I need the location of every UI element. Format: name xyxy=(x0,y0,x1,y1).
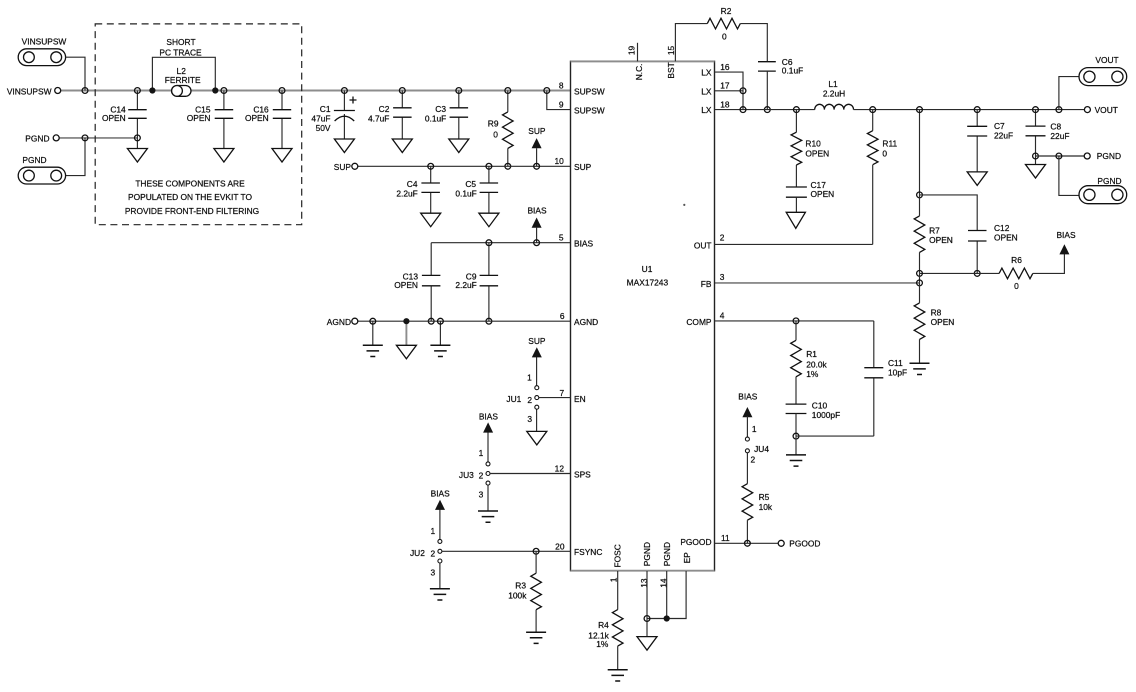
op-amp U1 MAX17243 body xyxy=(571,61,715,570)
svg-text:18: 18 xyxy=(720,99,730,109)
resistor R9 0 xyxy=(507,91,509,167)
wire AGND ground lead 2 xyxy=(439,321,441,345)
junction C1 top xyxy=(342,88,348,94)
svg-text:R2: R2 xyxy=(721,6,732,16)
svg-text:10: 10 xyxy=(554,156,564,166)
power arrow BIAS at R6 xyxy=(1059,244,1069,254)
svg-text:1%: 1% xyxy=(596,639,609,649)
junction R7/C12 node xyxy=(917,192,923,198)
svg-text:100k: 100k xyxy=(508,590,527,600)
svg-text:1: 1 xyxy=(752,424,757,434)
junction LX18 xyxy=(740,107,746,113)
svg-text:BIAS: BIAS xyxy=(574,239,593,249)
svg-text:OUT: OUT xyxy=(694,240,712,250)
terminal PGND right xyxy=(1084,153,1090,159)
svg-text:R4: R4 xyxy=(598,620,609,630)
svg-text:2.2uH: 2.2uH xyxy=(823,88,845,98)
wire PGND left net xyxy=(56,137,137,139)
wire VOUT to R7 node xyxy=(919,110,921,195)
ground C5 xyxy=(479,213,499,227)
resistor R2 0 xyxy=(707,18,740,29)
svg-text:JU1: JU1 xyxy=(506,394,521,404)
connector VOUT (2-pad oval) xyxy=(1079,68,1127,86)
svg-text:SUP: SUP xyxy=(528,336,546,346)
wire C10 node to ground xyxy=(795,436,797,455)
dashed note box front-end filtering xyxy=(95,24,302,225)
svg-text:PGND: PGND xyxy=(1097,176,1121,186)
svg-text:10pF: 10pF xyxy=(888,368,907,378)
junction C2 top xyxy=(399,88,405,94)
junction C14 top xyxy=(135,88,141,94)
svg-text:PGOOD: PGOOD xyxy=(680,537,711,547)
svg-text:2: 2 xyxy=(431,548,436,558)
junction C5 top xyxy=(486,163,492,169)
junction C9 bottom xyxy=(486,318,492,324)
ground R3 signal xyxy=(526,632,546,643)
ground C16 xyxy=(272,149,292,163)
connector PGND (2-pad oval) left xyxy=(18,167,65,184)
junction R9 top xyxy=(505,88,511,94)
svg-text:FERRITE: FERRITE xyxy=(165,75,201,85)
capacitor C1 47uF 50V xyxy=(343,91,345,140)
junction R3 top FSYNC xyxy=(533,548,539,554)
junction R10 top xyxy=(794,107,800,113)
resistor R7 OPEN xyxy=(919,195,921,274)
svg-text:EP: EP xyxy=(682,552,692,564)
ground AGND signal 2 xyxy=(430,345,450,356)
wire OUT pin 2 xyxy=(715,243,873,245)
svg-text:OPEN: OPEN xyxy=(811,189,835,199)
junction C6 bottom LX xyxy=(764,107,770,113)
svg-text:3: 3 xyxy=(431,567,436,577)
terminal SUP xyxy=(352,163,358,169)
svg-text:3: 3 xyxy=(527,414,532,424)
connector PGND (2-pad oval) right xyxy=(1079,186,1127,204)
junction VINSUPSW bus xyxy=(82,88,88,94)
junction AGND dot xyxy=(403,318,409,324)
junction R11 top xyxy=(870,107,876,113)
svg-text:OPEN: OPEN xyxy=(805,149,829,159)
svg-text:PGND: PGND xyxy=(662,542,672,566)
ground AGND triangle xyxy=(396,345,416,359)
capacitor C5 0.1uF xyxy=(488,166,490,213)
ground C4 xyxy=(421,213,441,227)
jumper JU4 xyxy=(746,426,748,438)
svg-text:VINSUPSW: VINSUPSW xyxy=(22,36,67,46)
terminal PGOOD xyxy=(778,540,784,546)
svg-text:OPEN: OPEN xyxy=(394,280,418,290)
svg-text:2: 2 xyxy=(479,471,484,481)
ground C15 xyxy=(214,149,234,163)
ground R8 signal xyxy=(910,363,930,374)
svg-text:R11: R11 xyxy=(882,138,897,148)
wire C8 to PGND terminal xyxy=(1036,155,1088,157)
capacitor C9 2.2uF xyxy=(488,243,490,322)
svg-text:C3: C3 xyxy=(435,104,446,114)
plus sign C1 xyxy=(350,97,357,104)
junction AGND 2 xyxy=(438,318,444,324)
connector VINSUPSW (2-pad oval) xyxy=(18,49,65,66)
svg-text:22uF: 22uF xyxy=(1050,131,1069,141)
svg-text:1: 1 xyxy=(479,448,484,458)
svg-text:C11: C11 xyxy=(888,358,903,368)
svg-text:22uF: 22uF xyxy=(994,130,1013,140)
wire SUP rail xyxy=(355,165,571,167)
ground C2 xyxy=(392,139,412,153)
svg-text:15: 15 xyxy=(666,45,676,55)
svg-text:OPEN: OPEN xyxy=(931,317,955,327)
wire R2 to C6 xyxy=(740,24,767,62)
svg-text:U1: U1 xyxy=(642,264,653,274)
svg-text:20: 20 xyxy=(555,542,565,552)
junction AGND 1 xyxy=(370,318,376,324)
junction L2 left dot xyxy=(149,87,155,93)
resistor R1 20.0k 1% xyxy=(795,321,797,404)
resistor R11 0 xyxy=(872,110,874,245)
resistor R6 0 xyxy=(999,268,1033,279)
capacitor C13 OPEN xyxy=(430,243,432,322)
ground AGND signal 1 xyxy=(363,345,383,356)
svg-text:C1: C1 xyxy=(320,104,331,114)
terminal VINSUPSW xyxy=(55,88,61,94)
junction C7 top xyxy=(974,107,980,113)
power arrow SUP at pin 10 xyxy=(532,138,542,148)
svg-text:1: 1 xyxy=(431,526,436,536)
junction C8 PGND xyxy=(1033,153,1039,159)
wire AGND ground lead 1 xyxy=(372,321,374,345)
wire COMP pin 4 xyxy=(715,320,874,322)
ground JU1 xyxy=(527,431,547,445)
svg-text:1: 1 xyxy=(527,372,532,382)
terminal VOUT xyxy=(1084,107,1090,113)
svg-text:R1: R1 xyxy=(806,349,817,359)
wire LX pin 18 to L1 xyxy=(715,109,815,111)
svg-text:JU3: JU3 xyxy=(459,470,474,480)
capacitor C3 0.1uF xyxy=(458,91,460,140)
wire PGND pin 13 stub xyxy=(646,571,648,637)
junction PGND 13 xyxy=(644,616,650,622)
capacitor C4 2.2uF xyxy=(430,166,432,213)
wire FSYNC pin 20 xyxy=(442,550,571,552)
svg-text:0: 0 xyxy=(1014,281,1019,291)
svg-text:LX: LX xyxy=(701,105,712,115)
junction C4 top xyxy=(428,163,434,169)
wire FB node horizontal xyxy=(920,272,1000,274)
jumper JU1 xyxy=(536,356,538,431)
junction FB node left xyxy=(917,271,923,277)
ground JU2 signal xyxy=(430,589,450,600)
junction SUP arrow xyxy=(534,163,540,169)
svg-text:R3: R3 xyxy=(515,581,526,591)
capacitor C16 xyxy=(281,91,283,149)
junction C13 bottom xyxy=(428,318,434,324)
svg-text:FB: FB xyxy=(701,279,712,289)
wire SPS pin 12 xyxy=(490,473,571,475)
resistor R5 10k xyxy=(742,484,753,521)
svg-text:19: 19 xyxy=(627,45,637,55)
wire FB link xyxy=(919,273,921,283)
junction FB line end xyxy=(917,280,923,286)
junction C16 top xyxy=(279,88,285,94)
jumper JU3 xyxy=(487,431,489,511)
svg-text:PGND: PGND xyxy=(642,542,652,566)
ground C10 signal xyxy=(786,455,806,466)
svg-text:EN: EN xyxy=(574,394,586,404)
wire FB net from U1 pin 3 xyxy=(715,282,920,284)
junction LX17 xyxy=(740,88,746,94)
capacitor C2 4.7uF xyxy=(401,91,403,140)
resistor R10 OPEN xyxy=(795,110,797,187)
junction C10 bottom xyxy=(793,433,799,439)
svg-text:1%: 1% xyxy=(806,369,819,379)
wire LX pin 16 jog xyxy=(715,72,744,110)
svg-text:20.0k: 20.0k xyxy=(806,359,827,369)
wire EN pin 7 xyxy=(539,397,571,399)
wire PGOOD pin 11 xyxy=(715,542,782,544)
junction PGND 14 dot xyxy=(664,615,670,621)
capacitor C7 22uF xyxy=(976,110,978,172)
junction R5 bottom PGOOD xyxy=(745,540,751,546)
svg-text:THESE COMPONENTS ARE: THESE COMPONENTS ARE xyxy=(135,178,245,188)
svg-text:SUPSW: SUPSW xyxy=(574,87,605,97)
junction R7 node top xyxy=(917,107,923,113)
junction BIAS arrow xyxy=(534,240,540,246)
wire AGND dot to ground lead xyxy=(405,321,407,345)
svg-text:SUPSW: SUPSW xyxy=(574,106,605,116)
svg-text:C10: C10 xyxy=(812,400,828,410)
svg-text:JU2: JU2 xyxy=(410,548,425,558)
svg-text:4: 4 xyxy=(720,310,725,320)
svg-text:10k: 10k xyxy=(759,502,773,512)
pin 19 N.C. stub xyxy=(637,43,639,62)
svg-text:C2: C2 xyxy=(379,104,390,114)
jumper JU2 xyxy=(439,509,441,589)
wire FOSC pin 1 stub xyxy=(617,571,619,610)
wire BST pin 15 to R2 xyxy=(675,24,707,62)
svg-text:BIAS: BIAS xyxy=(479,412,498,422)
svg-text:0.1uF: 0.1uF xyxy=(425,114,446,124)
svg-text:BST: BST xyxy=(666,62,676,78)
ferrite bead L2 short-trace bracket xyxy=(152,57,215,90)
capacitor C11 10pF branch xyxy=(796,321,874,436)
wire PGND pin 14 stub xyxy=(666,571,668,619)
svg-text:LX: LX xyxy=(701,86,712,96)
ground C8 xyxy=(1026,165,1046,179)
capacitor C10 1000pF xyxy=(786,404,807,413)
ferrite bead L2 symbol xyxy=(172,86,191,97)
svg-text:2.2uF: 2.2uF xyxy=(455,280,476,290)
svg-text:0: 0 xyxy=(722,31,727,41)
ground C1 xyxy=(334,139,354,153)
svg-text:8: 8 xyxy=(559,80,564,90)
ground PGND triangle xyxy=(637,637,657,651)
svg-text:SUP: SUP xyxy=(528,126,546,136)
svg-text:BIAS: BIAS xyxy=(1056,230,1075,240)
wire L1 to VOUT xyxy=(854,109,1088,111)
svg-text:C5: C5 xyxy=(465,179,476,189)
svg-text:3: 3 xyxy=(479,490,484,500)
terminal AGND xyxy=(352,318,358,324)
svg-text:POPULATED ON THE EVKIT TO: POPULATED ON THE EVKIT TO xyxy=(128,192,252,202)
svg-text:3: 3 xyxy=(720,272,725,282)
svg-text:AGND: AGND xyxy=(574,317,598,327)
svg-text:9: 9 xyxy=(559,99,564,109)
svg-text:R9: R9 xyxy=(488,119,499,129)
svg-text:PGND: PGND xyxy=(22,155,46,165)
capacitor C14 xyxy=(136,91,138,149)
svg-text:1000pF: 1000pF xyxy=(812,410,840,420)
svg-text:SUP: SUP xyxy=(574,162,592,172)
wire R6 to BIAS arrow xyxy=(1033,253,1065,273)
svg-text:12: 12 xyxy=(555,463,565,473)
junction R9 bottom xyxy=(505,163,511,169)
resistor R8 OPEN xyxy=(919,283,921,363)
svg-text:47uF: 47uF xyxy=(311,114,330,124)
svg-text:COMP: COMP xyxy=(686,317,712,327)
resistor R4 12.1k 1% xyxy=(612,610,623,647)
ground C7 xyxy=(967,172,987,186)
svg-text:17: 17 xyxy=(720,81,730,91)
junction C8 top xyxy=(1033,107,1039,113)
capacitor C15 xyxy=(223,91,225,149)
svg-text:MAX17243: MAX17243 xyxy=(627,278,669,288)
svg-text:AGND: AGND xyxy=(327,317,351,327)
svg-text:0.1uF: 0.1uF xyxy=(782,66,803,76)
inductor L1 2.2uH xyxy=(815,104,854,109)
ground C3 xyxy=(449,139,469,153)
svg-text:11: 11 xyxy=(721,533,730,543)
capacitor C12 OPEN xyxy=(920,195,978,274)
svg-text:5: 5 xyxy=(559,233,564,243)
capacitor C17 OPEN xyxy=(786,187,807,197)
svg-text:PGOOD: PGOOD xyxy=(789,539,820,549)
wire VINSUPSW connector to bus xyxy=(66,57,85,90)
junction C3 top xyxy=(456,88,462,94)
svg-text:R10: R10 xyxy=(805,139,821,149)
junction L2 right dot xyxy=(212,87,218,93)
ground C17 xyxy=(786,212,805,228)
svg-text:7: 7 xyxy=(560,388,565,398)
wire PGND connector branch right xyxy=(1059,156,1079,195)
svg-text:FSYNC: FSYNC xyxy=(574,547,602,557)
wire LX pin 17 xyxy=(715,90,744,92)
svg-text:BIAS: BIAS xyxy=(738,392,757,402)
svg-text:PGND: PGND xyxy=(1097,151,1121,161)
svg-text:6: 6 xyxy=(560,311,565,321)
junction C9 top xyxy=(486,240,492,246)
junction pin9 bus xyxy=(544,88,550,94)
svg-text:BIAS: BIAS xyxy=(431,489,450,499)
resistor R3 100k xyxy=(535,551,537,632)
svg-text:R6: R6 xyxy=(1011,255,1022,265)
svg-text:PGND: PGND xyxy=(25,134,49,144)
svg-text:2: 2 xyxy=(751,455,756,465)
svg-text:FOSC: FOSC xyxy=(613,544,623,567)
wire VOUT connector branch xyxy=(1059,77,1079,110)
junction R1 top xyxy=(793,318,799,324)
junction VOUT branch xyxy=(1056,107,1062,113)
ground C14 xyxy=(127,149,147,163)
svg-text:0: 0 xyxy=(493,129,498,139)
svg-text:PROVIDE FRONT-END FILTERING: PROVIDE FRONT-END FILTERING xyxy=(125,206,259,216)
svg-text:BIAS: BIAS xyxy=(527,206,546,216)
capacitor C6 0.1uF xyxy=(758,62,776,71)
svg-text:50V: 50V xyxy=(316,123,331,133)
svg-text:N.C.: N.C. xyxy=(634,64,644,81)
junction C14 bottom PGND xyxy=(135,135,141,141)
svg-text:OPEN: OPEN xyxy=(994,233,1018,243)
wire EP stub xyxy=(647,571,686,619)
svg-text:PC TRACE: PC TRACE xyxy=(159,48,202,58)
svg-text:VOUT: VOUT xyxy=(1095,55,1118,65)
svg-text:2: 2 xyxy=(720,233,725,243)
svg-text:16: 16 xyxy=(720,62,730,72)
svg-text:OPEN: OPEN xyxy=(102,113,126,123)
capacitor C8 22uF xyxy=(1035,110,1037,165)
junction C15 top xyxy=(221,88,227,94)
junction PGND left xyxy=(82,135,88,141)
svg-text:4.7uF: 4.7uF xyxy=(368,114,389,124)
wire VINSUPSW top bus xyxy=(58,90,571,92)
svg-text:0: 0 xyxy=(882,149,887,159)
svg-text:0.1uF: 0.1uF xyxy=(455,189,476,199)
svg-text:VOUT: VOUT xyxy=(1095,105,1118,115)
ground JU3 signal xyxy=(478,511,498,522)
svg-text:SHORT: SHORT xyxy=(166,37,195,47)
wire AGND rail pin 6 xyxy=(355,320,571,322)
svg-text:C4: C4 xyxy=(407,179,418,189)
svg-text:2.2uF: 2.2uF xyxy=(396,189,417,199)
svg-text:2: 2 xyxy=(527,395,532,405)
terminal PGND left xyxy=(53,135,59,141)
svg-text:1: 1 xyxy=(609,577,619,582)
svg-text:VINSUPSW: VINSUPSW xyxy=(7,86,52,96)
svg-text:SUP: SUP xyxy=(334,162,352,172)
svg-text:JU4: JU4 xyxy=(754,444,769,454)
junction PGND right branch xyxy=(1056,153,1062,159)
svg-text:OPEN: OPEN xyxy=(187,113,211,123)
junction C12 bottom xyxy=(974,271,980,277)
wire PGND connector to net xyxy=(65,138,85,176)
ground R4 signal xyxy=(608,670,628,681)
svg-text:SPS: SPS xyxy=(574,469,591,479)
svg-text:LX: LX xyxy=(701,68,712,78)
power arrow BIAS at pin 5 xyxy=(532,218,542,228)
stray mark xyxy=(683,204,685,206)
svg-text:OPEN: OPEN xyxy=(245,113,269,123)
wire BIAS rail pin 5 xyxy=(431,242,570,244)
svg-text:R5: R5 xyxy=(759,492,770,502)
svg-text:OPEN: OPEN xyxy=(929,235,953,245)
wire SUPSW pin 9 jog xyxy=(547,91,571,110)
